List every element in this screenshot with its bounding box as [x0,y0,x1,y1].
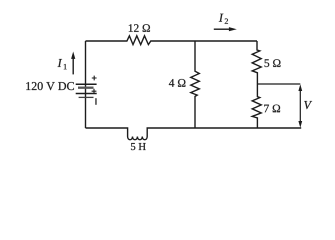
battery V1 short thick plate 1 [78,87,94,89]
inductor L1 value label 5 H [131,143,146,150]
voltage label V [304,101,312,109]
arrow I2 pointing right [214,28,230,30]
current label I2 [219,14,224,22]
battery V1 plus sign middle [92,89,97,94]
wire: top side with resistor R1 zigzag [86,36,258,45]
battery V1 small gray terminal mark [95,98,97,105]
resistor R1 value label 12 ohm [129,24,150,32]
wire: middle branch with resistor R2 zigzag [191,41,200,128]
battery V1 plus sign top [92,76,97,81]
resistor R2 value label 4 ohm [169,79,185,87]
battery V1 short thick plate 2 [79,96,94,98]
current label I1 [58,59,63,67]
wire: bottom side with inductor L1 coil [86,128,302,140]
wire: right branch with resistor R3 and resistor R4 zigzags [252,41,261,128]
arrow I1 pointing up [72,58,74,74]
wire: leader from node to voltage arrow [257,83,300,85]
source value label 120 V DC [26,82,74,90]
battery V1 long plate 2 [76,93,97,95]
wire: left side vertical [85,41,87,128]
voltage arrow V double headed vertical [299,89,301,123]
battery V1 long plate 1 [76,83,97,85]
resistor R3 value label 5 ohm [265,59,281,67]
resistor R4 value label 7 ohm [264,105,280,113]
